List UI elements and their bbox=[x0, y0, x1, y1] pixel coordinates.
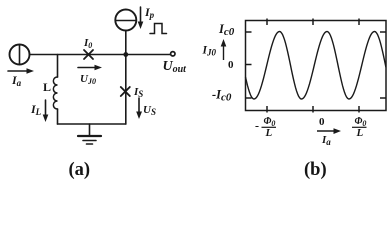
wire left branch top bbox=[57, 55, 59, 78]
tick left -Ic0 bbox=[246, 97, 252, 99]
tick right Ic0 bbox=[380, 31, 386, 33]
svg-text:-: - bbox=[255, 119, 259, 133]
svg-text:0: 0 bbox=[228, 59, 234, 71]
wire bottom horizontal bbox=[58, 123, 126, 125]
svg-text:IJ0: IJ0 bbox=[202, 45, 217, 58]
terminal Uout (open circle) bbox=[171, 52, 175, 56]
label -Phi0/L left fraction bbox=[255, 116, 276, 139]
svg-text:Uout: Uout bbox=[163, 59, 188, 75]
svg-text:0: 0 bbox=[319, 116, 325, 128]
svg-text:IS: IS bbox=[133, 86, 143, 99]
tick top mid bbox=[312, 19, 314, 26]
svg-text:Ia: Ia bbox=[11, 73, 22, 88]
svg-text:L: L bbox=[356, 127, 364, 139]
tick bottom mid bbox=[312, 106, 314, 113]
svg-text:L: L bbox=[43, 80, 51, 94]
tick top left bbox=[266, 19, 268, 26]
tick bottom right bbox=[358, 106, 360, 113]
josephson junction I0 (X on wire) bbox=[84, 50, 93, 59]
wire left branch bottom bbox=[57, 109, 59, 124]
svg-text:Ic0: Ic0 bbox=[218, 22, 235, 38]
tick top right bbox=[358, 19, 360, 26]
svg-text:L: L bbox=[265, 127, 273, 139]
graph box bbox=[246, 21, 387, 111]
svg-text:UJ0: UJ0 bbox=[80, 73, 96, 86]
svg-text:(b): (b) bbox=[304, 160, 327, 180]
tick left Ic0 bbox=[246, 31, 252, 33]
node junction dot bbox=[123, 52, 128, 57]
wire right branch vertical bbox=[125, 55, 127, 125]
wire main horizontal bbox=[30, 54, 171, 56]
current source Ia (circle with vertical bar) bbox=[10, 45, 30, 65]
label Phi0/L right fraction bbox=[352, 116, 367, 139]
svg-text:-Ic0: -Ic0 bbox=[212, 88, 232, 104]
current source Ip (circle with horizontal bar) bbox=[115, 10, 136, 31]
arrow Ia x-axis bbox=[317, 128, 341, 134]
arrow Ia bbox=[8, 68, 34, 74]
arrow IL bbox=[43, 100, 49, 122]
arrow US bbox=[136, 98, 142, 119]
arrow UJ0 bbox=[78, 65, 102, 71]
svg-text:Ia: Ia bbox=[321, 134, 331, 147]
svg-text:(a): (a) bbox=[69, 160, 91, 180]
tick left zero bbox=[246, 64, 252, 66]
svg-text:I0: I0 bbox=[83, 37, 92, 50]
svg-text:IL: IL bbox=[30, 102, 42, 117]
wire from Ip to node bbox=[125, 31, 127, 55]
svg-text:Ip: Ip bbox=[144, 5, 155, 20]
tick bottom left bbox=[266, 106, 268, 113]
pulse symbol bbox=[150, 24, 167, 34]
ground bbox=[78, 124, 101, 144]
svg-text:US: US bbox=[143, 104, 156, 117]
inductor L coil bbox=[53, 77, 57, 109]
arrow Ip bbox=[138, 7, 144, 29]
josephson junction IS (X on wire) bbox=[121, 87, 130, 96]
arrow IJ0 up bbox=[223, 44, 225, 60]
curve IJ0 vs Ia bbox=[246, 32, 386, 100]
tick right -Ic0 bbox=[380, 97, 386, 99]
